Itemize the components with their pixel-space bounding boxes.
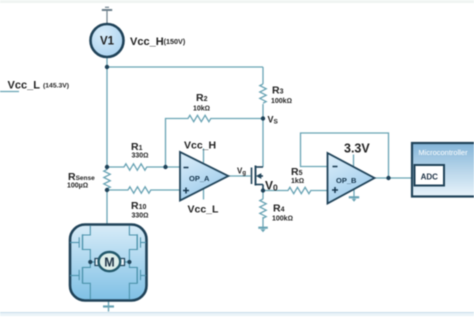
- svg-text:R10: R10: [131, 200, 146, 212]
- svg-text:Vg: Vg: [237, 167, 246, 177]
- svg-text:R4: R4: [273, 203, 285, 215]
- svg-text:R5: R5: [291, 166, 303, 178]
- svg-text:V0: V0: [265, 179, 278, 193]
- svg-text:Vcc_H: Vcc_H: [184, 140, 216, 152]
- svg-text:330Ω: 330Ω: [132, 153, 149, 160]
- svg-text:Microcontroller: Microcontroller: [418, 148, 468, 157]
- svg-text:OP_A: OP_A: [189, 174, 210, 183]
- svg-text:VS: VS: [268, 115, 279, 126]
- svg-text:10kΩ: 10kΩ: [193, 106, 210, 113]
- svg-text:Vcc_L: Vcc_L: [8, 80, 41, 92]
- svg-text:ADC: ADC: [421, 172, 439, 181]
- svg-text:R1: R1: [131, 141, 143, 153]
- svg-text:RSense: RSense: [68, 171, 95, 183]
- svg-text:Vcc_H(150V): Vcc_H(150V): [130, 36, 186, 48]
- svg-text:1kΩ: 1kΩ: [291, 178, 304, 185]
- svg-text:V1: V1: [100, 35, 115, 47]
- svg-text:100kΩ: 100kΩ: [272, 216, 293, 223]
- svg-text:3.3V: 3.3V: [344, 142, 370, 156]
- svg-text:(145.3V): (145.3V): [43, 83, 69, 90]
- svg-text:Vcc_L: Vcc_L: [188, 204, 220, 216]
- svg-text:330Ω: 330Ω: [132, 213, 149, 220]
- svg-text:OP_B: OP_B: [336, 176, 357, 185]
- svg-text:M: M: [104, 255, 114, 269]
- svg-text:100kΩ: 100kΩ: [271, 98, 292, 105]
- svg-text:100µΩ: 100µΩ: [67, 183, 88, 190]
- svg-text:R2: R2: [196, 92, 208, 104]
- svg-text:R3: R3: [272, 85, 284, 97]
